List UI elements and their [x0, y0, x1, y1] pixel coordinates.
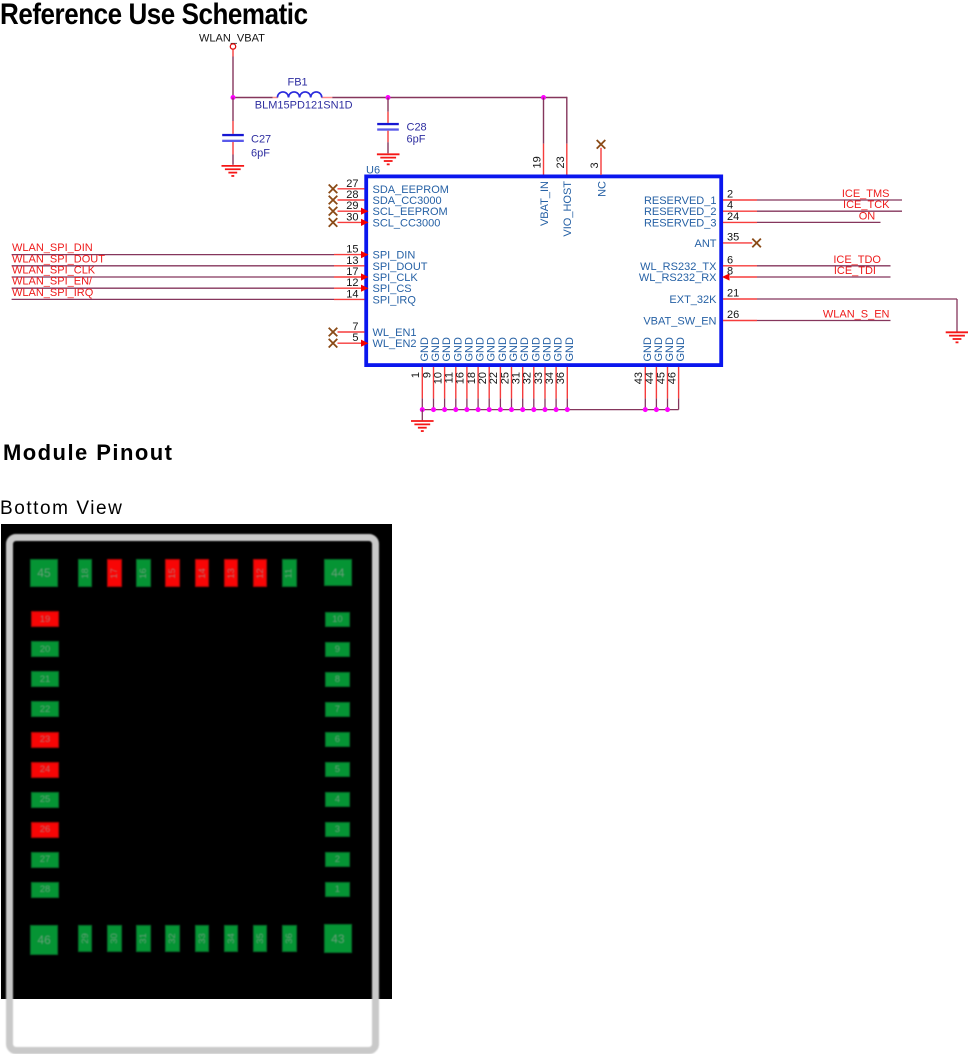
pad 30 — [107, 925, 122, 953]
wire net segment pin 8 — [757, 276, 891, 278]
wire net segment pin 6 — [757, 265, 891, 267]
junction — [554, 407, 559, 412]
IC U6 body — [366, 176, 721, 365]
pad 1 — [325, 882, 350, 897]
pad 12 — [253, 559, 268, 587]
svg-text:GND: GND — [675, 337, 687, 362]
pin 28 SDA_CC3000 — [329, 189, 442, 207]
wire WLAN_VBAT down — [232, 49, 234, 97]
pin 12 SPI_CS / net WLAN_SPI_EN/ — [12, 276, 412, 296]
wire GND bus — [422, 409, 678, 411]
junction — [643, 407, 648, 412]
pad 17 — [107, 559, 122, 587]
pin 32 GND (bottom) — [522, 337, 543, 410]
pad 7 — [325, 702, 350, 717]
svg-text:SDA_CC3000: SDA_CC3000 — [373, 195, 442, 207]
svg-text:U6: U6 — [366, 165, 380, 177]
svg-text:WL_EN2: WL_EN2 — [373, 338, 417, 350]
pad 2 — [325, 852, 350, 867]
pad 44 — [324, 559, 352, 586]
heading: Reference Use Schematic — [0, 0, 308, 28]
svg-text:GND: GND — [530, 337, 542, 362]
pin 46 GND (bottom) — [666, 337, 687, 410]
svg-text:GND: GND — [508, 337, 520, 362]
svg-text:16: 16 — [455, 372, 467, 384]
pin 2 RESERVED_1 — [644, 189, 902, 208]
pad 20 — [31, 641, 59, 657]
svg-text:GND: GND — [419, 337, 431, 362]
pad 31 — [136, 925, 151, 953]
svg-text:GND: GND — [486, 337, 498, 362]
pad 18 — [78, 559, 93, 587]
junction at VBAT_IN — [541, 95, 546, 100]
ground — [946, 332, 968, 342]
capacitor C27 — [222, 98, 271, 165]
junction — [453, 407, 458, 412]
junction — [665, 407, 670, 412]
svg-text:6: 6 — [727, 254, 733, 266]
svg-text:28: 28 — [346, 189, 358, 201]
svg-text:ICE_TCK: ICE_TCK — [843, 199, 890, 211]
svg-text:EXT_32K: EXT_32K — [669, 294, 717, 306]
svg-text:WLAN_S_EN: WLAN_S_EN — [823, 309, 890, 321]
pad 34 — [224, 925, 239, 953]
wire GND bus to ground — [421, 410, 423, 421]
pin 9 GND (bottom) — [421, 337, 442, 410]
svg-text:27: 27 — [346, 178, 358, 190]
pad 45 — [30, 559, 58, 587]
pad 26 — [31, 822, 59, 838]
pin 33 GND (bottom) — [533, 337, 554, 410]
svg-text:FB1: FB1 — [288, 77, 308, 89]
junction — [531, 407, 536, 412]
svg-text:36: 36 — [555, 372, 567, 384]
pin 35 ANT — [695, 231, 761, 250]
ground — [411, 421, 434, 431]
wire net segment pin 4 — [757, 210, 902, 212]
wire VBAT rail horizontal — [233, 97, 567, 99]
svg-text:SCL_EEPROM: SCL_EEPROM — [373, 206, 448, 218]
svg-text:WLAN_VBAT: WLAN_VBAT — [199, 33, 265, 45]
pin 5 WL_EN2 — [329, 332, 417, 350]
pin 31 GND (bottom) — [511, 337, 532, 410]
pin 3 NC (top) — [589, 162, 608, 197]
wire to pin 23 VIO_HOST — [566, 97, 568, 175]
pad 33 — [195, 925, 210, 953]
svg-text:GND: GND — [441, 337, 453, 362]
svg-text:SPI_CLK: SPI_CLK — [373, 272, 419, 284]
svg-text:26: 26 — [727, 309, 739, 321]
svg-text:GND: GND — [553, 337, 565, 362]
pad 8 — [325, 672, 350, 687]
pin 26 VBAT_SW_EN — [643, 309, 890, 328]
svg-text:VBAT_SW_EN: VBAT_SW_EN — [643, 316, 716, 328]
pin 17 SPI_CLK / net WLAN_SPI_CLK — [12, 265, 419, 285]
svg-text:WLAN_SPI_CLK: WLAN_SPI_CLK — [12, 265, 96, 277]
pin 1 GND (bottom) — [410, 337, 431, 410]
pad 23 — [31, 732, 59, 748]
pad 5 — [325, 762, 350, 777]
pin 6 WL_RS232_TX — [640, 254, 890, 273]
pad 22 — [31, 701, 59, 717]
pad 6 — [325, 732, 350, 747]
capacitor C28 — [377, 98, 426, 154]
pin 16 GND (bottom) — [455, 337, 476, 410]
svg-text:1: 1 — [410, 372, 422, 378]
svg-text:SPI_CS: SPI_CS — [373, 283, 412, 295]
svg-text:6pF: 6pF — [251, 148, 270, 160]
wire to pin 19 VBAT_IN — [543, 98, 545, 176]
svg-text:4: 4 — [727, 200, 733, 212]
junction — [476, 407, 481, 412]
ground — [377, 154, 400, 164]
junction — [442, 407, 447, 412]
svg-text:ON: ON — [859, 210, 876, 222]
svg-text:BLM15PD121SN1D: BLM15PD121SN1D — [255, 100, 353, 112]
svg-text:WLAN_SPI_DIN: WLAN_SPI_DIN — [12, 242, 93, 254]
svg-text:6pF: 6pF — [407, 134, 426, 146]
pad 36 — [282, 925, 297, 953]
pin 22 GND (bottom) — [488, 337, 509, 410]
svg-text:32: 32 — [522, 372, 534, 384]
pin 29 SCL_EEPROM — [329, 200, 448, 218]
svg-text:WL_RS232_RX: WL_RS232_RX — [639, 272, 717, 284]
pin 11 GND (bottom) — [444, 337, 465, 410]
pad 4 — [325, 792, 350, 807]
pin 10 GND (bottom) — [432, 337, 453, 410]
junction — [464, 407, 469, 412]
pin 30 SCL_CC3000 — [329, 211, 441, 229]
svg-text:13: 13 — [346, 255, 358, 267]
svg-text:2: 2 — [727, 189, 733, 201]
junction — [654, 407, 659, 412]
pin 14 SPI_IRQ / net WLAN_SPI_IRQ — [12, 287, 417, 307]
svg-text:C27: C27 — [251, 134, 271, 146]
svg-text:15: 15 — [346, 244, 358, 256]
pin 45 GND (bottom) — [655, 337, 676, 410]
svg-text:3: 3 — [589, 162, 601, 168]
svg-text:46: 46 — [666, 372, 678, 384]
pad 19 — [31, 611, 59, 627]
pin 3 NC stub with no-connect X — [597, 140, 606, 175]
heading: Bottom View — [0, 499, 123, 518]
svg-text:WL_EN1: WL_EN1 — [373, 327, 417, 339]
ferrite bead FB1 — [255, 77, 353, 112]
wire net segment pin 2 — [757, 199, 902, 201]
svg-text:RESERVED_3: RESERVED_3 — [644, 217, 717, 229]
pin 20 GND (bottom) — [477, 337, 498, 410]
svg-text:C28: C28 — [407, 122, 427, 134]
wire EXT_32K to ground — [757, 299, 957, 332]
svg-text:SCL_CC3000: SCL_CC3000 — [373, 217, 441, 229]
pad 32 — [165, 925, 180, 953]
junction — [509, 407, 514, 412]
pin 36 GND (bottom) — [555, 337, 576, 410]
svg-text:GND: GND — [564, 337, 576, 362]
pad 43 — [324, 924, 352, 952]
svg-text:RESERVED_2: RESERVED_2 — [644, 206, 717, 218]
svg-text:10: 10 — [432, 372, 444, 384]
wire net segment pin 26 — [757, 320, 891, 322]
svg-text:GND: GND — [463, 337, 475, 362]
svg-text:20: 20 — [477, 372, 489, 384]
junction at C27 — [231, 95, 236, 100]
pin 15 SPI_DIN / net WLAN_SPI_DIN — [12, 242, 416, 262]
svg-text:8: 8 — [727, 266, 733, 278]
pin 43 GND (bottom) — [633, 337, 654, 410]
pad 14 — [195, 559, 210, 587]
svg-text:ICE_TMS: ICE_TMS — [842, 188, 890, 200]
svg-text:SPI_DOUT: SPI_DOUT — [373, 261, 428, 273]
junction — [420, 407, 425, 412]
svg-text:21: 21 — [727, 288, 739, 300]
junction — [431, 407, 436, 412]
pad 3 — [325, 822, 350, 837]
pad 24 — [31, 762, 59, 778]
wire net segment pin 24 — [757, 221, 881, 223]
pin 34 GND (bottom) — [544, 337, 565, 410]
pin 19 VBAT_IN (top) — [532, 156, 551, 226]
svg-text:24: 24 — [727, 211, 739, 223]
pin 4 RESERVED_2 — [644, 200, 902, 219]
pin 8 WL_RS232_RX — [639, 266, 891, 285]
junction at C28 — [386, 95, 391, 100]
svg-text:SDA_EEPROM: SDA_EEPROM — [373, 184, 449, 196]
svg-text:23: 23 — [555, 156, 567, 168]
pad 27 — [31, 852, 59, 868]
svg-text:SPI_DIN: SPI_DIN — [373, 250, 416, 262]
junction — [487, 407, 492, 412]
svg-text:WLAN_SPI_DOUT: WLAN_SPI_DOUT — [12, 253, 105, 265]
svg-text:14: 14 — [346, 288, 358, 300]
svg-text:VIO_HOST: VIO_HOST — [562, 181, 574, 237]
svg-text:5: 5 — [352, 332, 358, 344]
junction — [543, 407, 548, 412]
pad 10 — [325, 612, 350, 627]
svg-text:NC: NC — [596, 181, 608, 197]
svg-text:ICE_TDO: ICE_TDO — [833, 254, 881, 266]
junction — [565, 407, 570, 412]
svg-text:WLAN_SPI_EN/: WLAN_SPI_EN/ — [12, 276, 93, 288]
svg-text:WL_RS232_TX: WL_RS232_TX — [640, 261, 717, 273]
pad 15 — [165, 559, 180, 587]
svg-text:WLAN_SPI_IRQ: WLAN_SPI_IRQ — [12, 287, 94, 299]
module pinout photo (bottom view) — [1, 524, 392, 999]
svg-text:RESERVED_1: RESERVED_1 — [644, 195, 717, 207]
svg-text:34: 34 — [544, 372, 556, 384]
svg-text:SPI_IRQ: SPI_IRQ — [373, 294, 417, 306]
junction — [520, 407, 525, 412]
svg-text:19: 19 — [532, 156, 544, 168]
pad 35 — [253, 925, 268, 953]
junction — [498, 407, 503, 412]
pin 21 EXT_32K — [669, 288, 757, 307]
pad 16 — [136, 559, 151, 587]
pin 25 GND (bottom) — [499, 337, 520, 410]
pad 13 — [224, 559, 239, 587]
svg-text:29: 29 — [346, 200, 358, 212]
svg-text:ICE_TDI: ICE_TDI — [834, 265, 876, 277]
svg-text:35: 35 — [727, 231, 739, 243]
module frame — [6, 534, 379, 1054]
svg-text:7: 7 — [352, 321, 358, 333]
svg-text:12: 12 — [346, 277, 358, 289]
pad 11 — [282, 559, 297, 587]
pin 24 RESERVED_3 — [644, 211, 881, 230]
svg-text:ANT: ANT — [695, 238, 717, 250]
svg-text:30: 30 — [346, 211, 358, 223]
pad 9 — [325, 642, 350, 657]
power terminal WLAN_VBAT — [230, 44, 235, 49]
pin 18 GND (bottom) — [466, 337, 487, 410]
heading: Module Pinout — [3, 442, 173, 464]
pad 25 — [31, 792, 59, 808]
svg-text:VBAT_IN: VBAT_IN — [539, 181, 551, 226]
svg-text:17: 17 — [346, 266, 358, 278]
pin 44 GND (bottom) — [644, 337, 665, 410]
pad 28 — [31, 882, 59, 898]
pad 21 — [31, 671, 59, 687]
pin 7 WL_EN1 — [329, 321, 417, 339]
ground — [222, 166, 245, 176]
pin 27 SDA_EEPROM — [329, 178, 449, 196]
pad 29 — [78, 925, 93, 953]
pad 46 — [30, 925, 58, 956]
pin 23 VIO_HOST (top) — [555, 156, 574, 236]
svg-text:25: 25 — [499, 372, 511, 384]
pin 13 SPI_DOUT / net WLAN_SPI_DOUT — [12, 253, 428, 273]
